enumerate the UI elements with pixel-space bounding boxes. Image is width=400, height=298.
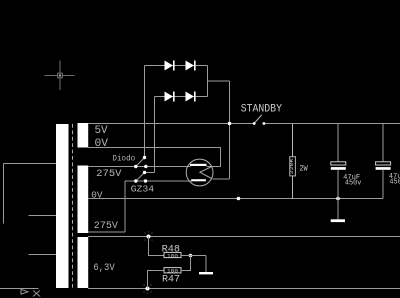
tube bottom plate — [191, 179, 206, 181]
svg-text:2W: 2W — [299, 164, 307, 173]
capacitor C1 47uF 450v — [331, 124, 346, 199]
svg-text:275V: 275V — [94, 220, 119, 232]
wire to tube cathode — [213, 178, 230, 180]
svg-text:6,3V: 6,3V — [93, 262, 115, 274]
junction dot 6.3V top / R48 (with blip marks) — [144, 231, 153, 242]
junction dot ground bus — [237, 197, 241, 201]
ground below C1 — [331, 199, 345, 223]
wire bottom diode row — [155, 96, 208, 98]
wire 275V bottom riser — [124, 181, 126, 232]
UCS icon X axis — [0, 289, 39, 295]
terminal B right — [144, 165, 147, 168]
wire HT centre-tap ground bus — [88, 198, 383, 200]
standby switch SW1 — [253, 115, 265, 125]
rectifier tube V1 GZ34 — [186, 159, 213, 186]
wire primary tap stub — [29, 215, 57, 217]
resistor R48 — [149, 237, 207, 258]
wire bus after standby switch — [264, 123, 400, 125]
primary wires — [4, 164, 57, 255]
wire 0V of 5V winding to tube plate right — [88, 148, 221, 167]
diode D1 — [165, 61, 175, 71]
transformer 5V filament winding — [78, 123, 89, 148]
diode D4 — [186, 92, 196, 102]
wire 275V top to terminals and tube top plate — [88, 166, 191, 168]
wire primary top stub — [4, 163, 57, 165]
junction dot cap1/ground — [336, 197, 340, 201]
wire top diode row — [145, 65, 208, 67]
diode D2 — [186, 61, 196, 71]
wire diode output drop to bus and tube cathode — [229, 81, 231, 179]
ground below R48/R47 — [199, 256, 213, 275]
junction dot R48/R47 — [189, 254, 193, 258]
jumper A to B-left — [136, 158, 145, 167]
svg-text:0V: 0V — [91, 191, 103, 201]
transformer core (dashed) — [72, 124, 74, 288]
junction dot 6.3V bottom / R47 (with blip marks) — [143, 283, 152, 294]
wire 275V bottom stub — [88, 231, 125, 233]
junction dot bus/diode output — [228, 122, 232, 126]
svg-text:Diodo: Diodo — [112, 153, 135, 163]
terminal C — [143, 171, 146, 174]
svg-text:R47: R47 — [162, 274, 180, 285]
terminal A — [143, 156, 146, 159]
resistor R47 — [148, 256, 191, 289]
wire diode output — [208, 80, 230, 82]
wire row D to tube bottom plate — [125, 180, 192, 182]
svg-text:450v: 450v — [389, 179, 400, 187]
svg-text:GZ34: GZ34 — [131, 184, 155, 194]
terminal B left — [134, 165, 137, 168]
resistor R49 2W bleeder — [290, 124, 296, 199]
tube top plate — [190, 164, 207, 166]
wire primary bottom stub — [29, 254, 57, 256]
crosshair cursor — [45, 61, 75, 91]
secondary wires — [88, 97, 400, 289]
diode D3 — [165, 92, 175, 102]
transformer HT winding 275-0-275 — [78, 166, 89, 234]
wire joining diode cathodes — [207, 66, 209, 97]
svg-text:5V: 5V — [95, 125, 108, 137]
svg-text:450v: 450v — [345, 179, 362, 187]
terminal D right — [144, 179, 147, 182]
tube cathode wedge — [200, 167, 212, 179]
jumper C to D-left — [136, 173, 145, 182]
rectifier selector terminal strip — [134, 156, 147, 183]
svg-text:275V: 275V — [96, 168, 122, 180]
wire 5V / HT+ bus to standby — [88, 123, 254, 125]
svg-text:0V: 0V — [95, 138, 109, 150]
wire terminal C stub — [145, 172, 155, 174]
wire 6.3V bottom — [88, 288, 400, 290]
terminal D left — [134, 179, 137, 182]
svg-text:220K: 220K — [289, 158, 295, 174]
wire 6.3V top — [88, 236, 400, 238]
silicon rectifier wiring — [145, 66, 230, 180]
wire left drop to terminal A — [144, 66, 146, 158]
transformer 6.3V heater winding — [78, 237, 89, 288]
svg-text:R48: R48 — [162, 245, 180, 256]
wire vertical to lower diode pair — [154, 97, 156, 173]
svg-text:X: X — [32, 289, 41, 298]
capacitor C2 47uF 450v — [376, 124, 391, 199]
svg-text:STANDBY: STANDBY — [241, 104, 283, 116]
transformer T1 primary winding bar — [56, 124, 69, 288]
wire primary left drop — [3, 164, 5, 224]
